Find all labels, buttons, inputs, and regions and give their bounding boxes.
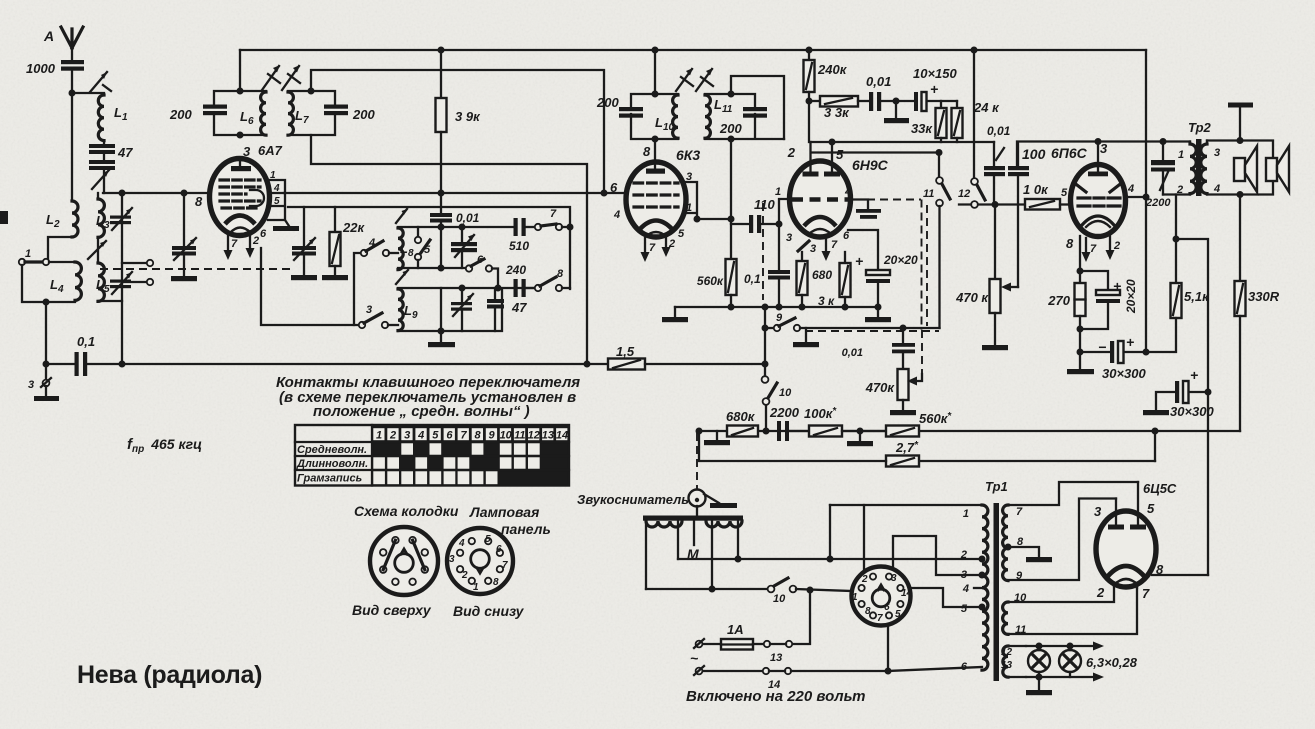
motor center lead + M (687, 520, 699, 562)
motor leads (646, 521, 738, 589)
dial lamps (1026, 642, 1138, 696)
capacitor 200 (L11) (719, 107, 767, 136)
gang dashed link (100, 268, 290, 270)
svg-text:+: + (1190, 367, 1198, 383)
switch contact 1 (closed) (19, 248, 49, 265)
svg-text:5: 5 (424, 244, 431, 256)
socket diagram top view (370, 527, 438, 595)
svg-text:8: 8 (474, 430, 481, 442)
svg-text:8: 8 (195, 194, 203, 209)
mains terminal top (690, 639, 721, 666)
switch contact 2 (open) (122, 260, 153, 285)
svg-text:1,5: 1,5 (616, 344, 635, 359)
tube 6N9S (775, 145, 889, 255)
L11 outer loop (731, 76, 784, 139)
inductor L6 (240, 92, 266, 135)
svg-text:5: 5 (485, 534, 491, 545)
capacitor 200 (L6) (169, 105, 227, 123)
inductor L7 (288, 92, 309, 135)
line y505 to Tr1 pin1 (830, 504, 982, 506)
svg-text:2: 2 (461, 570, 468, 581)
svg-text:7: 7 (1090, 243, 1097, 255)
svg-text:680: 680 (812, 268, 832, 282)
inductor L3 (96, 193, 110, 237)
svg-text:+: + (855, 253, 863, 269)
svg-text:0,01: 0,01 (842, 347, 863, 359)
svg-text:4: 4 (417, 430, 424, 442)
svg-text:5: 5 (895, 609, 901, 620)
resistor 5,1k (1146, 283, 1210, 352)
svg-text:0,1: 0,1 (744, 272, 761, 286)
svg-text:3: 3 (786, 232, 792, 244)
ground top right (1228, 103, 1253, 141)
svg-text:3: 3 (449, 554, 455, 565)
mains terminal bottom (694, 666, 762, 675)
capacitor 0,1 (46, 334, 122, 376)
wire node to L1 (72, 92, 104, 94)
motor M frame bar (643, 516, 743, 521)
trimmer arrow above L8 (396, 209, 407, 223)
inductor L10 (655, 95, 678, 138)
ground terminal 3 (28, 364, 59, 401)
svg-text:1: 1 (852, 592, 858, 603)
node bus x441 (438, 190, 445, 197)
wire switch11 to AVC line (938, 206, 940, 328)
svg-text:6: 6 (446, 430, 453, 442)
svg-text:6: 6 (610, 180, 618, 195)
svg-text:1А: 1А (727, 622, 744, 637)
switch 11 (923, 153, 950, 207)
svg-text:7: 7 (460, 430, 467, 442)
core trimmer arrow between L3 L5 (88, 237, 106, 263)
svg-text:7: 7 (231, 238, 238, 250)
resistor 22k (322, 207, 365, 280)
svg-text:3: 3 (243, 144, 251, 159)
svg-text:6: 6 (496, 544, 502, 555)
svg-text:10: 10 (500, 430, 513, 442)
grid leg 6N9S (779, 199, 790, 271)
svg-text:1: 1 (775, 186, 781, 198)
top line to Tr2 (1017, 142, 1190, 167)
svg-text:13: 13 (1001, 660, 1013, 671)
node 0,1 line x122 (119, 361, 126, 368)
motor winding right (706, 521, 742, 527)
svg-text:1: 1 (963, 508, 969, 520)
svg-text:200: 200 (352, 107, 375, 122)
switch 4 (354, 237, 398, 325)
trimmer cap in L9 (451, 285, 473, 332)
svg-text:11: 11 (514, 430, 525, 442)
svg-text:6: 6 (260, 228, 267, 240)
main grid bus y193 (103, 192, 208, 194)
svg-text:30×300: 30×300 (1170, 404, 1215, 419)
svg-text:Грамзапись: Грамзапись (297, 473, 362, 485)
contact 13 (764, 641, 792, 664)
svg-text:Длинноволн.: Длинноволн. (296, 458, 368, 470)
feedback line y431 (699, 430, 1240, 432)
svg-text:3: 3 (28, 379, 34, 391)
resistor 3k (818, 252, 851, 308)
resistor 330R (1235, 281, 1280, 431)
Tr1 primary winding (960, 505, 988, 673)
inductor L8 (398, 228, 414, 270)
svg-text:4: 4 (458, 538, 465, 549)
Tr2 secondary winding (1201, 141, 1220, 196)
pin4 bypass cap (850, 200, 881, 219)
svg-text:560к: 560к (697, 274, 724, 288)
coil box L9 (398, 288, 534, 331)
svg-text:A: A (43, 28, 54, 44)
wire C1000 to node (71, 70, 73, 93)
tube 6K3 (610, 139, 700, 240)
svg-text:1: 1 (1178, 149, 1184, 161)
tank circuit L7 box (288, 91, 335, 135)
node L8 spine (438, 224, 445, 231)
feedback drop 330R (1239, 195, 1241, 282)
svg-text:8: 8 (1066, 236, 1074, 251)
trimmer padding cap mid (291, 207, 317, 280)
switch row 8 with cap 240 (505, 263, 570, 297)
coil box L8 (398, 227, 514, 268)
riser x830 (829, 505, 831, 559)
svg-text:6,3×0,28: 6,3×0,28 (1086, 655, 1138, 670)
cathode return line y307 (675, 306, 878, 308)
inductor L1 (98, 95, 128, 141)
wire L4 bottom down (45, 302, 47, 364)
svg-text:5: 5 (836, 147, 844, 162)
svg-text:2: 2 (252, 235, 259, 247)
svg-text:330R: 330R (1248, 289, 1280, 304)
resistor 100k* (789, 406, 886, 437)
svg-text:5: 5 (1147, 501, 1155, 516)
filament arrow 7 (822, 238, 831, 261)
svg-text:8: 8 (493, 577, 499, 588)
switch 5 (415, 227, 431, 268)
svg-text:3: 3 (1100, 141, 1108, 156)
Tr2 bottom line (1163, 193, 1190, 195)
capacitor 47 osc (487, 288, 527, 331)
svg-text:5,1к: 5,1к (1184, 289, 1210, 304)
svg-text:~: ~ (690, 650, 698, 666)
dashed split line through tube (854, 199, 921, 201)
keyboard switch table (295, 425, 569, 486)
svg-text:Вид сверху: Вид сверху (352, 602, 432, 618)
ground left y307 (662, 307, 688, 322)
switch row 7 with cap 510 (509, 208, 574, 253)
volume pot 470k (955, 205, 1008, 351)
cathode leg (1079, 236, 1081, 271)
ground right y307 (865, 307, 891, 322)
svg-text:240к: 240к (817, 62, 848, 77)
tank circuit L11 box (705, 94, 784, 139)
wire bus A to L6 (239, 50, 241, 91)
plate leg pin5 (831, 142, 833, 172)
svg-text:Звукосниматель: Звукосниматель (577, 492, 689, 507)
svg-text:Схема колодки: Схема колодки (354, 503, 459, 519)
svg-text:470 к: 470 к (955, 290, 989, 305)
screen pin4 to B+ (1125, 196, 1146, 198)
6C5S cathode pin8 (1152, 574, 1208, 576)
svg-text:6A7: 6A7 (258, 143, 283, 158)
svg-text:14: 14 (556, 430, 568, 442)
wiper arrow into 470k (1001, 283, 1018, 292)
socket pin2 riser (863, 505, 865, 572)
grid 3 lever (798, 241, 809, 251)
svg-text:7: 7 (550, 208, 557, 220)
svg-text:4: 4 (273, 183, 280, 194)
svg-text:3: 3 (404, 430, 410, 442)
wire to switch 3 4 column (261, 248, 358, 325)
svg-text:20×20: 20×20 (883, 253, 918, 267)
resistor 24k vertical (952, 100, 1001, 142)
resistor 1,5 (608, 344, 765, 370)
electrolytic 10x150 (913, 66, 958, 111)
motor winding left (646, 521, 682, 527)
svg-text:1 0к: 1 0к (1023, 182, 1049, 197)
svg-text:12: 12 (528, 430, 540, 442)
svg-text:4: 4 (962, 583, 969, 595)
inductor L9 (398, 289, 418, 331)
svg-text:3: 3 (1214, 147, 1220, 159)
tube 6C5S rectifier (1094, 481, 1177, 601)
svg-text:22к: 22к (342, 220, 365, 235)
trimmer arrow between L8 L9 (396, 270, 408, 284)
svg-text:1: 1 (270, 170, 276, 181)
resistor 470k AVC (865, 369, 916, 415)
capacitor 0,01 osc (430, 193, 480, 227)
switch 10a (762, 364, 793, 431)
link to 2,7 line (1154, 431, 1156, 461)
svg-text:3: 3 (891, 573, 897, 584)
wire C47 to bus (103, 169, 105, 193)
capacitor 47 (double) (89, 144, 133, 170)
svg-text:11: 11 (923, 188, 934, 200)
plate line y142 (811, 141, 995, 143)
resistor 560k (697, 259, 737, 307)
svg-text:100: 100 (1022, 146, 1046, 162)
svg-text:4: 4 (1213, 183, 1220, 195)
ground on AVC line (793, 328, 819, 347)
svg-text:6П6С: 6П6С (1051, 145, 1088, 161)
svg-text:3: 3 (961, 569, 967, 581)
svg-text:7: 7 (877, 613, 883, 624)
svg-text:8: 8 (557, 268, 564, 280)
pin 6 ground bar (260, 220, 299, 240)
loudspeaker 2 (1266, 146, 1289, 192)
capacitor 200 (L10) (596, 95, 643, 118)
svg-text:3: 3 (810, 243, 816, 255)
svg-text:3: 3 (686, 171, 692, 183)
capacitor 0,01 top right (984, 124, 1011, 205)
svg-text:2: 2 (960, 549, 967, 561)
switch 9 (762, 307, 940, 364)
svg-text:+: + (930, 81, 938, 97)
Tr2 core (1196, 139, 1202, 196)
svg-text:4: 4 (368, 237, 375, 249)
line from pin box to osc switches y208 (288, 207, 570, 289)
node L7 top (308, 88, 315, 95)
svg-text:200: 200 (596, 95, 619, 110)
svg-text:6: 6 (843, 230, 850, 242)
resistor 2,7* (699, 431, 919, 467)
grid bus right of tube (284, 192, 626, 194)
wire L11 to plate spine (730, 139, 732, 260)
svg-text:47: 47 (511, 300, 527, 315)
vertical L3/L5 right leg (121, 193, 123, 364)
pickup dashed link (696, 433, 698, 489)
inductor L11 (705, 95, 733, 138)
svg-text:0,1: 0,1 (77, 334, 95, 349)
svg-text:Тр2: Тр2 (1188, 120, 1212, 135)
electrolytic 20x20 (848, 230, 918, 307)
svg-text:6Ц5С: 6Ц5С (1143, 481, 1177, 496)
trimmer cap 6 (451, 224, 484, 269)
svg-text:−: − (1098, 339, 1106, 355)
line2 to switch 11 (811, 151, 939, 153)
node L6 top (237, 88, 244, 95)
tube 6A7 (195, 143, 283, 236)
svg-text:10: 10 (773, 593, 786, 605)
svg-text:5: 5 (961, 603, 968, 615)
plate leg pin2 (809, 142, 811, 172)
svg-text:Средневолн.: Средневолн. (297, 444, 367, 456)
svg-text:8: 8 (865, 606, 871, 617)
node antenna junction (69, 90, 76, 97)
svg-text:3: 3 (366, 304, 372, 316)
capacitor 0,01 coupling (866, 74, 915, 111)
coil box L4 (22, 262, 75, 302)
resistor 33k vertical (911, 101, 947, 142)
svg-text:1000: 1000 (26, 61, 56, 76)
dashed AVC box (763, 200, 939, 375)
trimmer arrow 2 (92, 170, 109, 189)
node gang cap (181, 190, 188, 197)
svg-text:2200: 2200 (769, 405, 800, 420)
svg-text:3: 3 (1094, 504, 1102, 519)
svg-text:Ламповая: Ламповая (469, 504, 539, 520)
svg-text:14: 14 (901, 588, 913, 599)
switch 3 (359, 304, 398, 328)
svg-text:5: 5 (678, 228, 685, 240)
B+ vertical (1145, 50, 1147, 352)
ground under 270 (1067, 352, 1094, 374)
Tr2 pin2 to rectifier node (1175, 195, 1177, 284)
tube 6P6S (1066, 141, 1134, 251)
svg-text:200: 200 (719, 121, 742, 136)
svg-text:4: 4 (844, 186, 851, 198)
socket pin7 drop (887, 624, 889, 671)
node bus A x655 (652, 47, 659, 54)
capacitor 110 (731, 197, 779, 233)
tank circuit L6 box (214, 91, 266, 135)
svg-text:1: 1 (25, 248, 31, 260)
svg-text:2: 2 (861, 574, 868, 585)
svg-text:положение „ средн. волны“ ): положение „ средн. волны“ ) (313, 403, 530, 420)
ground under L9 (428, 342, 455, 347)
resistor 680 (797, 252, 833, 307)
ground stub on pickup line (704, 431, 730, 445)
svg-text:10×150: 10×150 (913, 66, 958, 81)
svg-text:12: 12 (1001, 647, 1013, 658)
socket pin14 link to tap5 (908, 588, 982, 607)
electrolytic 30x300 second (1143, 367, 1215, 419)
table caption (276, 374, 580, 420)
node bus x122 (119, 190, 126, 197)
resistor 33k horizontal (809, 96, 869, 120)
wire 6K3 plate to spine (697, 218, 731, 220)
svg-text:3 9к: 3 9к (455, 109, 481, 124)
wire L2 to switch 1 (48, 237, 72, 259)
variable gang capacitor left (171, 193, 197, 281)
svg-text:12: 12 (958, 188, 970, 200)
capacitor 0,1 (6N9S) (744, 270, 790, 307)
svg-text:24 к: 24 к (973, 100, 1000, 115)
node 0,1 line left (43, 361, 50, 368)
inductor L4 (50, 262, 81, 300)
pin box 1 4 5 (268, 170, 285, 220)
switch 12 (958, 178, 985, 208)
6C5S heater pins 2 7 (1114, 584, 1137, 588)
svg-text:510: 510 (509, 239, 529, 253)
wire switch12 to grid line (959, 203, 1025, 205)
inductor L2 (46, 201, 78, 237)
line 2,7 y461 (919, 460, 1155, 462)
svg-text:680к: 680к (726, 409, 756, 424)
mains line y589 (646, 588, 767, 590)
svg-text:2: 2 (1113, 240, 1120, 252)
speaker box (1207, 141, 1273, 195)
bus B from L7 top (311, 70, 604, 193)
spine through L8 (440, 227, 442, 268)
wire to fuse line (793, 590, 810, 644)
tank circuit L10 box (631, 94, 678, 139)
fuse 1A (721, 622, 763, 650)
wire bus A to L10 (654, 50, 656, 94)
svg-text:7: 7 (649, 242, 656, 254)
trimmer cap of L5 (110, 272, 132, 294)
top bus A y50 (240, 49, 1146, 51)
svg-text:10: 10 (779, 387, 792, 399)
svg-text:47: 47 (117, 145, 133, 160)
resistor 3,9k (436, 47, 482, 194)
socket diagram bottom view (447, 528, 513, 594)
electrolytic 20x20 cathode (1077, 271, 1139, 333)
wire to Tr1 pin6 (791, 667, 982, 671)
long line 0,1 to 1,5 (122, 363, 608, 365)
capacitor 0,01 AVC (842, 328, 915, 369)
tube socket under chassis (852, 567, 913, 626)
svg-text:7: 7 (502, 560, 508, 571)
6C5S top leads (1116, 482, 1138, 524)
plate pin3 to Tr2 line (1097, 142, 1099, 173)
wire L1 to C47 (103, 141, 105, 145)
svg-text:30×300: 30×300 (1102, 366, 1147, 381)
svg-text:7: 7 (1016, 506, 1023, 518)
svg-text:33к: 33к (911, 121, 933, 136)
svg-text:2200: 2200 (1145, 197, 1171, 209)
resistor 240k (804, 47, 848, 143)
svg-text:240: 240 (505, 263, 526, 277)
trimmer cap of L3 (110, 208, 132, 230)
svg-text:Тр1: Тр1 (985, 479, 1008, 494)
svg-text:6Н9С: 6Н9С (852, 157, 889, 173)
capacitor 100 (1008, 142, 1029, 287)
svg-text:Вид снизу: Вид снизу (453, 603, 525, 619)
svg-text:1: 1 (473, 582, 479, 593)
wire L7 bottom to osc line (311, 135, 587, 364)
svg-text:110: 110 (754, 197, 775, 212)
trimmer arrows L10 L11 (676, 68, 713, 91)
